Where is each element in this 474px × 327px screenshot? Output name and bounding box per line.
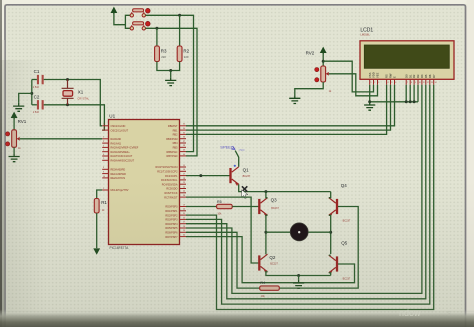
svg-text:5: 5: [391, 82, 392, 84]
mouse cursor: [242, 186, 248, 198]
pic U1 body: [109, 120, 180, 245]
svg-text:6: 6: [103, 154, 104, 156]
wire Q4 emitter to Q5: [329, 215, 331, 254]
wire C2 left: [32, 104, 37, 106]
svg-text:D6: D6: [428, 74, 432, 78]
window top margin: [0, 0, 474, 4]
wire power to VDD: [323, 61, 373, 92]
svg-text:RB4: RB4: [173, 142, 178, 145]
wire motor right: [307, 231, 331, 233]
svg-text:220: 220: [161, 55, 166, 59]
junction: [178, 14, 181, 17]
power terminal RV2: [320, 47, 327, 55]
wire RV1 wiper to RA0: [20, 138, 103, 140]
wire D7 to RD7: [186, 85, 434, 310]
svg-text:7: 7: [103, 158, 104, 160]
wire motor left: [266, 231, 291, 233]
op U1 label: [109, 113, 115, 118]
node SPEED label: [220, 144, 245, 167]
ground RV1: [9, 153, 20, 161]
wire Q3 base (R5 net): [186, 206, 217, 208]
wire RV2 wiper to VEE: [329, 74, 378, 96]
wire to ground: [19, 93, 32, 103]
ground R3R2: [165, 77, 176, 85]
svg-text:RB0/INT: RB0/INT: [168, 125, 178, 128]
wire D3 down: [417, 85, 419, 102]
svg-text:VSS: VSS: [368, 72, 372, 78]
junction: [199, 174, 202, 177]
svg-text:OSC2/CLKOUT: OSC2/CLKOUT: [111, 129, 129, 132]
push button 1: [130, 8, 150, 17]
junction: [413, 100, 416, 103]
svg-text:BC237: BC237: [243, 175, 251, 178]
svg-text:RC1/T1OSI/CCP2: RC1/T1OSI/CCP2: [157, 171, 178, 174]
svg-text:RB3/PGM: RB3/PGM: [166, 138, 177, 141]
wire: [13, 147, 15, 153]
svg-text:RS: RS: [385, 74, 389, 78]
wire R2 top: [179, 15, 181, 46]
wire Q2 emitter: [266, 272, 331, 276]
wire R1 bottom: [96, 213, 98, 248]
transistor Q1: [231, 167, 251, 186]
svg-text:VDD: VDD: [372, 72, 376, 78]
svg-text:RB7/PGD: RB7/PGD: [167, 155, 178, 158]
resistor R4: [260, 281, 280, 298]
resistor R5: [217, 200, 233, 215]
svg-text:s: s: [447, 309, 451, 318]
svg-text:OSC1/CLKIN: OSC1/CLKIN: [111, 125, 126, 128]
wire Q3 emitter to Q2: [266, 215, 268, 254]
wire: [322, 53, 324, 66]
wire Q3 collector: [266, 192, 268, 198]
svg-text:D3: D3: [416, 74, 420, 78]
lcd label: [360, 27, 373, 36]
junction: [264, 231, 267, 234]
svg-text:2: 2: [103, 137, 104, 139]
crystal X1: [62, 80, 90, 105]
wire cap bus: [31, 80, 33, 105]
svg-text:RC2/CCP1: RC2/CCP1: [165, 175, 178, 178]
power terminal (top): [111, 7, 118, 15]
junction: [66, 78, 69, 81]
svg-text:E: E: [393, 76, 397, 78]
svg-text:RB1: RB1: [173, 129, 178, 132]
wire E to RB0: [186, 85, 395, 126]
svg-text:3: 3: [103, 141, 104, 143]
svg-text:6: 6: [395, 82, 396, 84]
svg-text:RA5/AN4/SS/C2OUT: RA5/AN4/SS/C2OUT: [111, 160, 135, 163]
transistor Q4: [329, 183, 351, 223]
wire VSS down: [369, 85, 371, 102]
pot RV2: [306, 50, 332, 92]
junction: [368, 100, 371, 103]
wire RD6 to R4: [186, 232, 260, 288]
wire RS to RB2: [186, 85, 387, 135]
svg-text:D7: D7: [432, 74, 436, 78]
wire D4 to RD4: [186, 85, 422, 294]
wire C1 left: [32, 79, 37, 81]
junction: [322, 60, 325, 63]
svg-text:D1: D1: [408, 74, 412, 78]
wire Q4 collector: [329, 192, 331, 198]
wire Q5 collector: [329, 254, 331, 256]
junction: [329, 231, 332, 234]
svg-text:RE1/AN6/WR: RE1/AN6/WR: [111, 173, 126, 176]
junction: [66, 103, 69, 106]
svg-text:40: 40: [183, 154, 185, 156]
svg-text:39: 39: [183, 150, 185, 152]
junction: [405, 100, 408, 103]
wire R3 top: [156, 28, 158, 46]
wire R3/R2 bottoms: [157, 62, 180, 71]
svg-text:RA1/AN1: RA1/AN1: [111, 142, 122, 145]
resistor R3: [155, 46, 167, 62]
svg-text:RA0/AN0: RA0/AN0: [111, 138, 122, 141]
lcd pins: [368, 72, 437, 85]
svg-text:33: 33: [183, 124, 185, 126]
lcd screen: [364, 45, 449, 68]
ground arrow below R1: [93, 248, 100, 254]
transistor Q3: [259, 198, 279, 217]
wire RW to RB1: [186, 85, 391, 130]
wire D5 to RD5: [186, 85, 426, 299]
junction: [409, 100, 412, 103]
motor: [290, 223, 308, 241]
svg-text:VEE: VEE: [376, 72, 380, 78]
svg-text:13: 13: [103, 124, 105, 126]
svg-text:36: 36: [183, 137, 185, 139]
svg-text:15: 15: [183, 165, 185, 167]
transistor Q2: [259, 254, 278, 273]
wire: [13, 118, 15, 130]
svg-text:RV2: RV2: [306, 50, 315, 55]
svg-text:8: 8: [411, 82, 412, 84]
svg-text:3: 3: [378, 82, 379, 84]
svg-text:R3: R3: [161, 48, 167, 53]
push button 2: [130, 21, 150, 30]
svg-text:18: 18: [183, 178, 185, 180]
svg-text:12: 12: [427, 82, 429, 84]
svg-text:RA4/T0CKI/C1OUT: RA4/T0CKI/C1OUT: [111, 155, 133, 158]
svg-text:LCD1: LCD1: [360, 27, 373, 33]
capacitor C2: [33, 95, 44, 115]
wire R5 to Q3: [232, 206, 258, 208]
junction: [297, 274, 300, 277]
svg-text:37: 37: [183, 141, 185, 143]
pic left pins: [102, 124, 139, 193]
wire ground stub: [170, 71, 172, 78]
svg-text:U1: U1: [109, 113, 115, 118]
svg-text:D0: D0: [404, 74, 408, 78]
svg-text:10: 10: [419, 82, 421, 84]
svg-text:X1: X1: [78, 90, 84, 95]
svg-text:CRYSTAL: CRYSTAL: [77, 97, 89, 101]
wire Q1 emitter: [239, 184, 331, 191]
watermark: [399, 308, 451, 318]
wire RV2 bottom: [295, 82, 323, 95]
svg-text:RW: RW: [389, 73, 393, 78]
svg-text:LM016L: LM016L: [360, 33, 370, 37]
wire: [125, 25, 130, 29]
svg-text:35: 35: [183, 132, 185, 134]
junction: [30, 92, 33, 95]
svg-text:34: 34: [183, 128, 185, 130]
svg-text:RE0/AN5/RD: RE0/AN5/RD: [111, 169, 126, 172]
svg-text:14: 14: [435, 82, 437, 84]
svg-text:Q1: Q1: [243, 168, 250, 173]
wire C2 to OSC2: [44, 105, 105, 130]
svg-text:7: 7: [407, 82, 408, 84]
svg-text:17: 17: [183, 174, 185, 176]
svg-text:RA3/AN3/VREF+: RA3/AN3/VREF+: [111, 151, 131, 154]
wire Q4 base: [279, 207, 358, 289]
svg-text:RB5: RB5: [173, 147, 178, 150]
wire: [114, 13, 130, 25]
svg-text:9: 9: [415, 82, 416, 84]
svg-text:RA2/AN2/VREF-/CVREF: RA2/AN2/VREF-/CVREF: [111, 147, 139, 150]
svg-text:=500: =500: [239, 148, 245, 152]
left screen edge: [0, 0, 4, 327]
wire D6 to RD6: [186, 85, 430, 304]
svg-text:RE2/AN7/CS: RE2/AN7/CS: [111, 177, 126, 180]
svg-text:D2: D2: [412, 74, 416, 78]
svg-text:D4: D4: [420, 74, 424, 78]
junction: [264, 190, 267, 193]
bottom dark strip: [0, 310, 474, 327]
wire C1 to OSC1: [44, 80, 102, 126]
svg-text:13: 13: [431, 82, 433, 84]
junction: [155, 27, 158, 30]
power terminal RV1: [11, 112, 18, 120]
transistor Q5: [329, 241, 351, 281]
svg-text:4: 4: [387, 82, 388, 84]
wire D0 down: [405, 85, 407, 102]
wire Q1 base from RC4: [186, 175, 230, 177]
svg-text:RB2: RB2: [173, 134, 178, 137]
junction: [169, 69, 172, 72]
svg-text:5: 5: [103, 150, 104, 152]
wire Q5 emitter: [329, 273, 331, 276]
ground H-bridge: [293, 280, 304, 288]
wire D2 down: [413, 85, 415, 102]
resistor R2: [177, 46, 189, 62]
vignette: [0, 60, 474, 320]
svg-text:1: 1: [371, 82, 372, 84]
svg-text:11: 11: [423, 82, 425, 84]
wire D1 down: [409, 85, 411, 102]
pic right pins: [156, 124, 186, 239]
svg-text:ndow: ndow: [399, 308, 421, 318]
svg-text:4: 4: [103, 145, 104, 147]
wire Q2 base from RC7: [186, 197, 258, 263]
svg-text:D5: D5: [424, 74, 428, 78]
wire MCLR: [97, 190, 103, 199]
svg-text:RC0/T1OSO/T1CKI: RC0/T1OSO/T1CKI: [156, 166, 178, 169]
pic U1 part name: [110, 246, 130, 250]
svg-text:10: 10: [103, 176, 105, 178]
ground RV2: [289, 95, 300, 103]
capacitor C1: [33, 69, 44, 89]
svg-text:RB6/PGC: RB6/PGC: [167, 151, 178, 154]
svg-text:16: 16: [183, 169, 185, 171]
pot RV1: [6, 119, 27, 150]
wire ground bus: [370, 101, 418, 103]
wire button1 to RB6: [146, 15, 194, 151]
wire Q5 base from RD7: [186, 237, 355, 283]
svg-text:R2: R2: [183, 48, 189, 53]
svg-text:14: 14: [103, 128, 105, 130]
ground LCD: [364, 102, 375, 110]
resistor R1: [94, 199, 107, 214]
svg-text:38: 38: [183, 145, 185, 147]
wire Q1 collector up: [235, 151, 239, 167]
svg-text:220: 220: [184, 55, 189, 59]
svg-text:8: 8: [103, 167, 104, 169]
wire: [298, 276, 300, 280]
lcd LCD1 body: [360, 41, 454, 80]
svg-text:9: 9: [103, 172, 104, 174]
wire button2 to RB7: [146, 28, 198, 156]
svg-text:2: 2: [374, 82, 375, 84]
ground C1C2: [13, 103, 24, 111]
